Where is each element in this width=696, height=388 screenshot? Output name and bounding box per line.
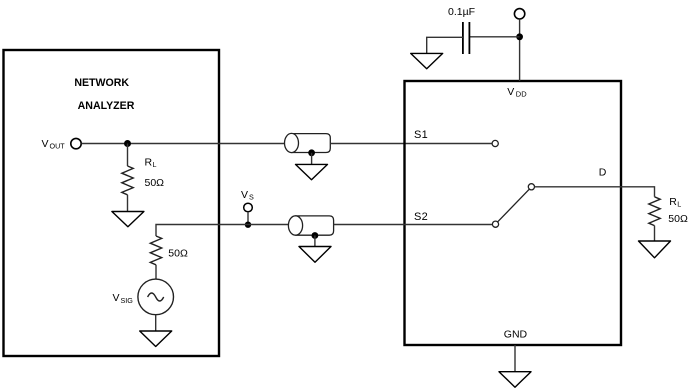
svg-text:50Ω: 50Ω (168, 248, 188, 260)
label VOUT (42, 138, 66, 151)
svg-text:L: L (677, 200, 681, 209)
node VS (245, 222, 251, 228)
ground below GND pin (499, 372, 531, 388)
wire coax2 to S2 (334, 224, 405, 226)
svg-text:V: V (113, 292, 120, 304)
svg-text:S: S (249, 192, 254, 201)
label 50Ω (right RL) (668, 213, 688, 225)
svg-text:GND: GND (504, 329, 528, 341)
pin S2 open contact (492, 221, 498, 227)
ground below coax1 (296, 164, 328, 179)
svg-text:OUT: OUT (50, 142, 66, 151)
label 0.1µF (448, 6, 475, 18)
wire capacitor to ground (427, 37, 463, 53)
switch pole contact (528, 184, 534, 190)
wire VS terminal to node (247, 212, 249, 225)
ground below RL (left) (112, 212, 144, 227)
label 50Ω (left RL) (145, 177, 165, 189)
svg-text:V: V (42, 138, 49, 150)
label NETWORK (74, 77, 129, 89)
coax cable 1 (upper) (285, 133, 331, 152)
wire coax1 to S1 (330, 143, 492, 145)
svg-text:R: R (669, 196, 677, 208)
ground below capacitor (411, 53, 443, 68)
svg-text:S1: S1 (414, 129, 428, 141)
ground below coax2 (299, 247, 331, 263)
svg-text:50Ω: 50Ω (668, 213, 688, 225)
node coax2 shield (312, 232, 319, 246)
svg-text:SIG: SIG (121, 296, 134, 305)
wire source to coax2 (156, 225, 296, 237)
network analyzer box (4, 50, 220, 356)
terminal VS (244, 203, 253, 212)
label D (599, 167, 607, 179)
label S1 (414, 129, 428, 141)
svg-text:S2: S2 (414, 211, 428, 223)
label 50Ω (source) (168, 248, 188, 260)
svg-text:L: L (153, 160, 157, 169)
svg-text:V: V (507, 86, 514, 98)
label GND (504, 329, 528, 341)
resistor 50Ω (source) (150, 236, 161, 279)
svg-text:NETWORK: NETWORK (74, 77, 129, 89)
label VDD (507, 86, 527, 98)
svg-text:DD: DD (516, 90, 527, 99)
wire junction to RL (127, 144, 129, 167)
wire D to RL (right) (535, 187, 655, 197)
label VS (241, 189, 254, 202)
wire capacitor to VDD node (469, 36, 519, 38)
svg-text:D: D (599, 167, 607, 179)
wire VOUT to coax1 (82, 143, 292, 145)
wire VSIG to ground (155, 315, 157, 331)
ground below RL (right) (639, 241, 671, 258)
terminal VOUT (71, 138, 81, 148)
node coax1 shield (308, 149, 315, 164)
node VDD / capacitor (516, 33, 523, 40)
switch IC box (405, 81, 622, 345)
resistor RL (right) 50Ω (649, 197, 660, 241)
source VSIG (138, 279, 174, 315)
label RL (left) (145, 156, 157, 169)
wire GND pin (514, 345, 516, 372)
label S2 (414, 211, 428, 223)
label VSIG (113, 292, 134, 305)
svg-text:ANALYZER: ANALYZER (78, 100, 135, 112)
svg-text:R: R (145, 156, 153, 168)
svg-text:50Ω: 50Ω (145, 177, 165, 189)
ground below VSIG (140, 331, 172, 347)
label ANALYZER (78, 100, 135, 112)
wire VDD terminal to box (519, 19, 521, 81)
capacitor C 0.1µF (463, 22, 470, 54)
wire S2 from box edge (405, 224, 493, 226)
label RL (right) (669, 196, 681, 209)
pin S1 open contact (492, 140, 498, 146)
coax cable 2 (lower) (288, 216, 333, 235)
resistor RL (left) 50Ω (122, 166, 133, 212)
switch arm S2 to pole (498, 189, 530, 222)
svg-text:V: V (241, 189, 248, 201)
node junction VOUT/RL (124, 140, 131, 147)
svg-text:0.1µF: 0.1µF (448, 6, 475, 18)
terminal VDD (514, 9, 524, 19)
